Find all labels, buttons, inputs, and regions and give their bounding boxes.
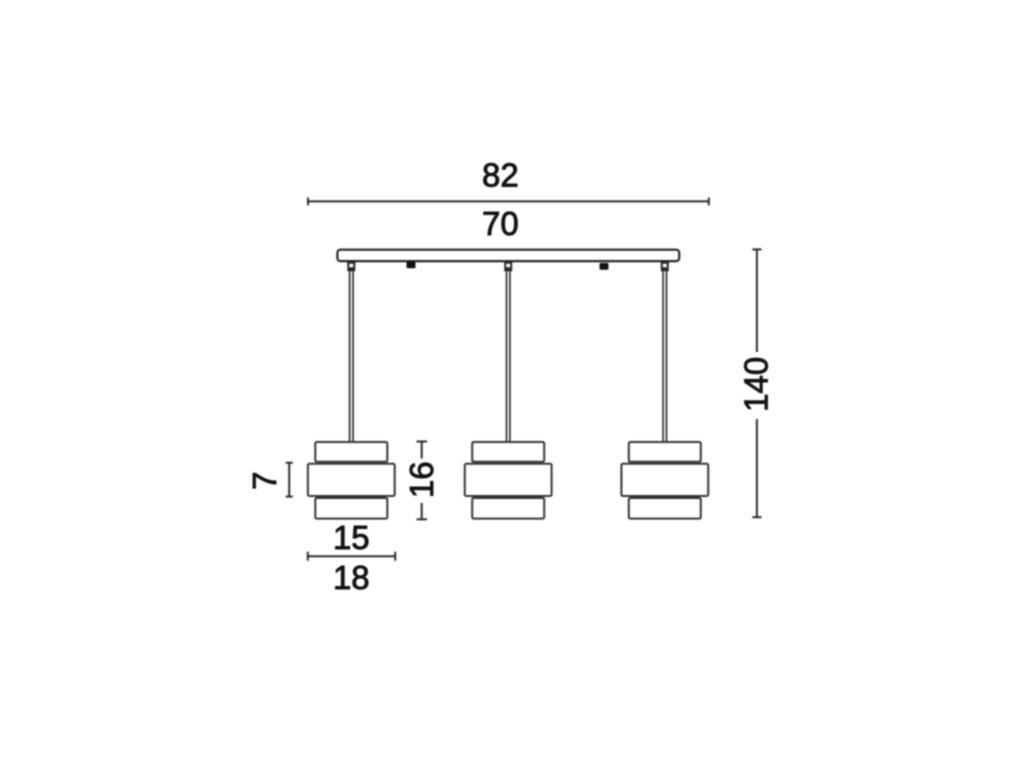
svg-text:70: 70 — [482, 205, 519, 242]
dimension line 140 — [752, 249, 761, 517]
lampshade 3 top band — [629, 442, 701, 462]
svg-text:140: 140 — [738, 357, 775, 412]
lampshade 1 top band — [315, 442, 387, 462]
dimension line 7 — [286, 463, 293, 497]
screw cap left — [407, 262, 416, 269]
lampshade 1 bottom band — [315, 498, 387, 519]
svg-text:16: 16 — [403, 461, 440, 498]
screw cap right — [600, 263, 609, 270]
lampshade 2 middle band — [465, 464, 552, 496]
cord grip 1 — [348, 263, 354, 271]
lampshade 2 bottom band — [472, 498, 544, 519]
svg-text:82: 82 — [482, 156, 519, 193]
lampshade 1 middle band — [308, 464, 395, 496]
dimension line 82 — [308, 197, 709, 205]
dimension line 16 — [417, 442, 428, 520]
suspension cord 1 — [350, 271, 353, 442]
suspension cord 3 — [663, 271, 666, 442]
svg-text:7: 7 — [246, 472, 283, 490]
lampshade 3 middle band — [621, 464, 708, 496]
ceiling bar canopy — [337, 250, 679, 261]
cord grip 3 — [662, 263, 668, 271]
suspension cord 2 — [507, 271, 510, 442]
svg-text:15: 15 — [333, 519, 370, 556]
cord grip 2 — [505, 263, 511, 271]
lampshade 3 bottom band — [629, 498, 701, 519]
dimension line 15-18 — [308, 552, 395, 561]
svg-text:18: 18 — [333, 559, 370, 596]
lampshade 2 top band — [472, 442, 544, 462]
